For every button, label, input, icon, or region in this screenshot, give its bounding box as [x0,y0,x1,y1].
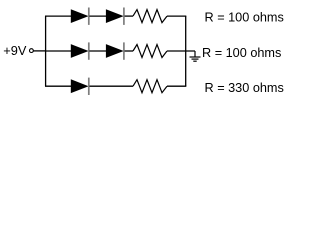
resistor R2 middle 100 ohms [133,45,167,58]
diode D4 middle [106,44,124,58]
wire +9V to left bus [34,50,47,52]
wire between top diodes [89,15,106,17]
diode D2 top cathode bar [123,8,125,25]
resistor R3 bottom 330 ohms [133,80,167,93]
diode D2 top [106,9,124,23]
svg-text:R = 100 ohms: R = 100 ohms [202,46,281,60]
svg-text:R = 330 ohms: R = 330 ohms [205,81,284,95]
terminal +9V [30,49,34,53]
svg-text:+9V: +9V [3,43,27,58]
diode D3 middle [71,44,89,58]
svg-text:R = 100 ohms: R = 100 ohms [205,10,284,24]
wire top branch left [45,15,71,17]
diode D5 bottom cathode bar [88,78,90,95]
diode D5 bottom [71,79,89,93]
wire middle branch left [45,50,71,52]
wire top to resistor [125,15,133,17]
diode D4 middle cathode bar [123,42,125,59]
resistor R1 top 100 ohms [133,10,167,23]
wire bottom branch left [45,85,71,87]
wire bottom to resistor [90,85,134,87]
diode D1 top cathode bar [88,8,90,25]
wire middle to resistor [125,50,133,52]
wire top branch right [167,15,186,17]
wire middle branch right to ground stub [167,50,195,52]
wire left bus [45,16,47,86]
diode D3 middle cathode bar [88,42,90,59]
wire between middle diodes [89,50,106,52]
ground [190,51,201,61]
wire bottom branch right [167,85,186,87]
diode D1 top [71,9,89,23]
wire right bus [185,16,187,86]
